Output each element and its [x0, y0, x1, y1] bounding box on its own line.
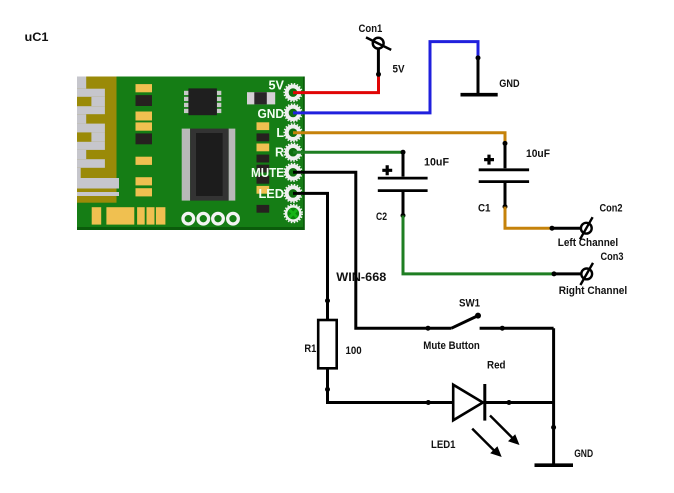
wire Con2 stem: [552, 227, 581, 230]
junction R1 top: [325, 298, 330, 303]
wire R1 to LED: [328, 389, 454, 402]
junction at top ground pin: [476, 55, 481, 60]
module uC1 WIN-668 bluetooth board: [77, 77, 305, 231]
svg-text:5V: 5V: [393, 64, 406, 76]
svg-text:R: R: [275, 146, 284, 160]
uC1 SMD resistor: [247, 92, 275, 104]
svg-text:Right Channel: Right Channel: [559, 285, 628, 297]
resistor R1: [318, 301, 337, 390]
junction at Con1 pin: [376, 72, 381, 77]
svg-text:Red: Red: [487, 360, 506, 372]
wire Con1 stem: [377, 49, 380, 75]
wire C2 to Con3 green: [403, 216, 554, 274]
junction at C1 top: [503, 141, 508, 146]
svg-text:uC1: uC1: [25, 30, 49, 44]
junction switch right pin: [500, 326, 505, 331]
svg-text:SW1: SW1: [459, 298, 480, 310]
wire MUTE black: [293, 172, 452, 328]
svg-text:10uF: 10uF: [424, 157, 449, 169]
uC1 pin pads: [284, 84, 302, 223]
uC1 bottom hole row: [183, 213, 238, 224]
svg-text:Mute Button: Mute Button: [423, 340, 480, 352]
wire GND blue: [293, 42, 478, 113]
junction LED cathode: [507, 400, 512, 405]
svg-text:10uF: 10uF: [526, 148, 550, 160]
svg-text:100: 100: [346, 345, 362, 357]
svg-text:GND: GND: [499, 78, 519, 90]
connector Con3: [580, 263, 593, 285]
switch SW1: [452, 313, 554, 329]
svg-text:Con2: Con2: [600, 203, 623, 215]
svg-text:C2: C2: [376, 211, 387, 223]
junction at C1 bottom: [503, 204, 508, 209]
svg-text:R1: R1: [304, 343, 316, 355]
svg-text:GND: GND: [574, 448, 593, 460]
uC1 bottom pads: [92, 207, 166, 224]
connector Con1: [366, 37, 391, 50]
wire C1 to Con2 orange: [505, 207, 552, 229]
junction at C2 bottom: [401, 213, 406, 218]
svg-text:Left Channel: Left Channel: [558, 237, 618, 249]
uC1 middle component column: [136, 84, 153, 196]
svg-text:5V: 5V: [269, 79, 285, 93]
svg-text:C1: C1: [478, 203, 491, 215]
junction green to Con3: [552, 271, 557, 276]
svg-text:MUTE: MUTE: [251, 166, 284, 180]
wire L orange: [293, 133, 505, 144]
uC1 small SOIC IC: [184, 88, 221, 115]
uC1 right component column: [257, 122, 270, 212]
junction R1 bottom: [325, 387, 330, 392]
connector Con2: [580, 217, 593, 239]
junction bottom ground pin: [551, 425, 556, 430]
svg-text:Con1: Con1: [359, 23, 383, 35]
junction LED anode: [426, 400, 431, 405]
wire R green: [293, 151, 403, 154]
junction at C2 top: [401, 150, 406, 155]
svg-text:LED1: LED1: [431, 439, 456, 451]
junction switch left pin: [426, 326, 431, 331]
svg-text:L: L: [276, 126, 284, 140]
capacitor C1: [479, 143, 529, 206]
svg-text:GND: GND: [258, 107, 285, 121]
ground symbol top: [461, 58, 498, 95]
wire 5V red: [293, 74, 379, 92]
wire Con3 stem: [554, 272, 582, 275]
svg-text:Con3: Con3: [601, 251, 624, 263]
uC1 antenna: [77, 77, 119, 203]
junction orange to Con2: [550, 226, 555, 231]
uC1 X pad: [284, 205, 302, 223]
uC1 main IC: [182, 129, 236, 201]
wire switch to bottom ground: [552, 328, 555, 463]
LED LED1: [453, 384, 519, 457]
ground symbol bottom: [535, 463, 574, 467]
svg-text:LED: LED: [259, 187, 285, 201]
capacitor C2: [378, 152, 428, 215]
wire LED cathode to GND: [486, 401, 554, 404]
svg-text:WIN-668: WIN-668: [336, 270, 386, 284]
wire LED pin black: [293, 193, 328, 300]
